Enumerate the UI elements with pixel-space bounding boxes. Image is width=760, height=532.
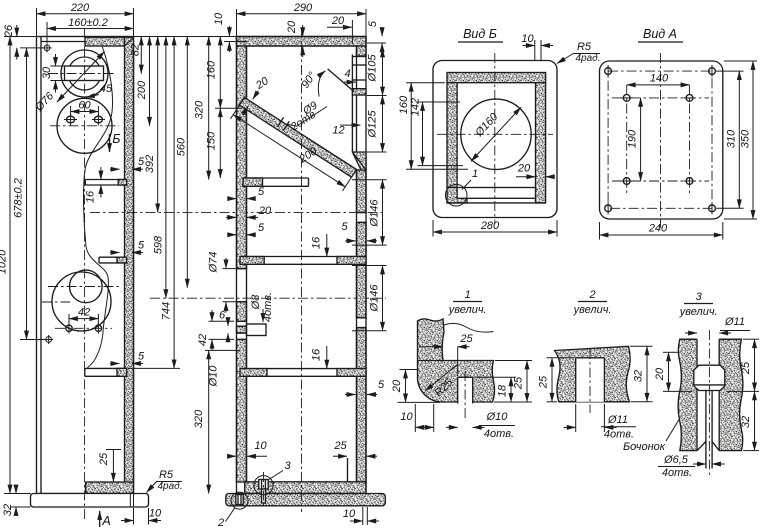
detail 2 dimension O11 4otv	[575, 404, 577, 432]
svg-text:25: 25	[513, 376, 525, 390]
arrow A bottom	[99, 511, 101, 527]
mid view: right wall inner edge lower	[356, 170, 358, 482]
shelf 3	[85, 367, 127, 369]
view B left wall	[447, 83, 457, 188]
svg-text:16: 16	[311, 348, 323, 361]
svg-text:Бочонок: Бочонок	[623, 441, 666, 453]
dimension 160 +-0.2	[46, 22, 48, 43]
svg-text:Вид Б: Вид Б	[463, 27, 497, 41]
detail 2 dimension 32	[630, 345, 653, 347]
svg-text:10: 10	[149, 508, 162, 520]
svg-text:678±0.2: 678±0.2	[13, 178, 25, 218]
speaker circle 1 outer	[61, 50, 108, 97]
svg-text:Ø11: Ø11	[724, 316, 745, 328]
port bottom chamfer	[352, 152, 366, 170]
detail 1 body (wall column + bottom slab, R25 corner)	[418, 319, 495, 402]
svg-text:240: 240	[648, 223, 668, 235]
svg-text:32: 32	[740, 416, 752, 428]
port tube lines	[351, 55, 353, 153]
dimension O74 left wall hole	[223, 268, 241, 270]
mid view: plinth section	[226, 494, 385, 506]
svg-text:2: 2	[589, 289, 596, 301]
dimension 160 view B	[406, 82, 445, 84]
left view: right side wall section (stipple)	[125, 37, 134, 482]
svg-text:4: 4	[344, 68, 350, 80]
dash-dot extension y298	[150, 297, 386, 299]
svg-text:30: 30	[41, 66, 53, 79]
dimension O76 diagonal	[57, 52, 105, 103]
svg-text:190: 190	[627, 129, 639, 148]
svg-text:Ø10: Ø10	[208, 365, 220, 388]
dimension 16 shelf1	[100, 167, 102, 180]
dimension 560	[186, 37, 188, 288]
svg-text:20: 20	[517, 163, 531, 175]
svg-text:5: 5	[138, 240, 145, 252]
left view: outer cabinet outline	[37, 37, 134, 494]
speaker circle 3 inner	[70, 270, 103, 303]
svg-text:320: 320	[193, 409, 205, 428]
svg-text:350: 350	[740, 129, 752, 148]
mid view: left wall section upper	[237, 46, 247, 269]
speaker 1 magnet rectangle	[65, 66, 104, 81]
svg-text:10: 10	[521, 33, 534, 45]
bottom wall inner left edge	[85, 482, 87, 494]
svg-text:598: 598	[152, 235, 164, 254]
detail 3 countersink	[697, 442, 706, 451]
dimension 16 shelf C	[326, 346, 328, 369]
svg-text:25: 25	[538, 375, 550, 389]
svg-text:5: 5	[378, 379, 385, 391]
svg-text:5: 5	[367, 20, 379, 27]
section break wavy line	[83, 46, 112, 368]
svg-text:12: 12	[332, 125, 344, 137]
svg-text:Ø125: Ø125	[367, 110, 379, 139]
svg-text:200: 200	[136, 80, 148, 100]
dimension 12 port	[340, 124, 361, 126]
svg-text:60: 60	[78, 100, 91, 112]
svg-text:5: 5	[138, 351, 145, 363]
dimension 16 shelf B	[326, 234, 328, 257]
dimension 32 plinth height	[10, 506, 31, 508]
mid view: right wall break lines	[357, 212, 367, 214]
callout 5 left wall lower	[228, 234, 236, 236]
detail 1 hole notch	[458, 377, 473, 403]
dimension 20 board thickness	[253, 91, 259, 100]
left view: bottom wall section (stipple)	[86, 482, 134, 494]
view A corner hole ticks	[607, 65, 609, 77]
svg-text:140: 140	[650, 73, 669, 85]
svg-text:10: 10	[343, 508, 356, 520]
mid view: right wall inner edge upper	[356, 46, 358, 56]
dimension 150 mid	[215, 107, 242, 109]
svg-text:744: 744	[161, 302, 173, 320]
dimension 10 left wall bottom	[228, 455, 236, 457]
mid view: top wall section	[237, 37, 367, 47]
svg-text:увелич.: увелич.	[679, 306, 718, 318]
mid view: top-left lip line	[237, 41, 247, 43]
svg-text:3: 3	[696, 291, 703, 303]
svg-text:392: 392	[144, 155, 156, 173]
dimension 240 view A	[599, 222, 601, 240]
screw detail circle 2	[236, 495, 243, 505]
svg-text:Ø11: Ø11	[607, 414, 628, 426]
callout 5 shelf2	[110, 252, 120, 254]
svg-text:42: 42	[78, 307, 90, 319]
wall screw hole top	[44, 45, 50, 51]
mid view: top wall inner edge	[247, 45, 357, 47]
callout 20 left wall	[226, 216, 236, 218]
svg-text:82: 82	[130, 44, 142, 56]
detail 1 dimension 18	[475, 376, 517, 378]
centerline circle1	[48, 73, 116, 75]
svg-text:4отв.: 4отв.	[484, 428, 514, 440]
centerline circle3	[48, 286, 122, 288]
mid view: left wall section lower	[237, 339, 247, 482]
svg-text:10: 10	[400, 411, 413, 423]
dimension 10 plinth right	[362, 507, 364, 525]
speaker circle 1 inner	[68, 57, 101, 90]
svg-text:20: 20	[258, 205, 272, 217]
detail 3 dimension 32 right	[743, 450, 759, 452]
svg-text:5: 5	[258, 222, 265, 234]
dimension 142 view B	[418, 101, 461, 103]
view B top wall band	[447, 73, 546, 83]
dimension 82	[140, 37, 142, 74]
svg-text:320: 320	[194, 100, 206, 119]
view A corner holes	[605, 68, 612, 75]
callout 5 shelf1	[110, 168, 120, 170]
left view: inner top lip line	[41, 41, 85, 43]
svg-text:Ø74: Ø74	[208, 252, 220, 274]
mid view: left wall section mid	[237, 302, 247, 322]
right dim column reference line	[134, 36, 237, 38]
view B bottom-left corner piece	[447, 188, 467, 203]
inner corner block line	[347, 458, 349, 482]
left view: top wall section (stipple)	[85, 37, 133, 46]
svg-text:5: 5	[341, 221, 348, 233]
view A body	[600, 61, 723, 219]
dimension 310 view A	[716, 70, 744, 72]
svg-text:160±0.2: 160±0.2	[68, 17, 108, 29]
view B outer rounded body	[433, 61, 557, 218]
dimension 42 (speaker3 holes)	[68, 314, 70, 324]
dimension 320 upper	[208, 37, 210, 180]
svg-text:4отв.: 4отв.	[262, 292, 274, 322]
shelf A	[243, 177, 309, 179]
dimension 598	[165, 37, 167, 299]
dimension 60 (speaker2 holes)	[70, 106, 72, 116]
svg-text:42: 42	[197, 334, 209, 346]
svg-text:560: 560	[176, 137, 188, 156]
screw detail circle 3	[259, 480, 268, 490]
view B corner detail circle 1	[445, 184, 467, 206]
dimension O105	[382, 49, 384, 96]
dimension O146 lower	[352, 265, 387, 267]
dimension O146 upper	[352, 179, 387, 181]
dimension 42 ledge	[209, 320, 235, 322]
dimension 25 right wall bottom	[333, 455, 347, 457]
svg-text:6: 6	[219, 310, 226, 322]
detail 1 dimension 20 left	[400, 369, 418, 371]
svg-text:увелич.: увелич.	[573, 304, 612, 316]
dimension 20 top wall	[302, 25, 304, 36]
svg-text:10: 10	[254, 440, 267, 452]
left view: corner miter line	[125, 37, 134, 46]
svg-text:4отв.: 4отв.	[604, 429, 634, 441]
dimension 20 top right	[351, 20, 353, 44]
svg-text:Б: Б	[112, 132, 120, 146]
left view: front panel inner edge line	[40, 37, 42, 494]
detail 1 dimension 10 bottom	[414, 404, 416, 432]
dimension 200	[149, 37, 151, 126]
mid view: outer box	[237, 37, 367, 494]
svg-text:220: 220	[70, 2, 90, 14]
mid view: right wall section segments	[357, 46, 367, 56]
svg-text:Ø105: Ø105	[367, 54, 379, 83]
svg-text:Ø10: Ø10	[486, 411, 509, 423]
svg-text:18: 18	[497, 384, 509, 397]
svg-text:1: 1	[465, 289, 471, 301]
detail 2 centerline	[589, 349, 591, 413]
svg-text:10: 10	[213, 12, 225, 25]
svg-text:Ø6,5: Ø6,5	[663, 454, 689, 466]
svg-text:160: 160	[206, 60, 218, 79]
dimension 160 mid	[219, 37, 221, 109]
mid view: terminal block stub	[247, 324, 267, 336]
section arrow B	[109, 134, 111, 152]
callout 5 left wall upper	[228, 198, 236, 200]
centerline vertical left view	[84, 28, 86, 521]
left view: plinth (base)	[31, 494, 149, 508]
detail 1 dimension 25 right	[495, 360, 532, 362]
dimension 744	[173, 37, 175, 369]
centerline vertical mid view	[301, 28, 303, 512]
view B bottom inner line	[447, 202, 546, 204]
svg-text:4рад.: 4рад.	[158, 481, 183, 492]
dimension 678 +-0.2	[26, 48, 28, 340]
svg-text:32: 32	[633, 370, 645, 382]
svg-text:А: А	[101, 514, 110, 528]
svg-text:32: 32	[2, 504, 14, 516]
svg-text:Ø146: Ø146	[369, 284, 381, 313]
view A inner holes	[623, 95, 630, 102]
wall screw hole bottom	[46, 337, 52, 343]
svg-text:25: 25	[333, 440, 347, 452]
dimension 5 top right	[367, 42, 386, 44]
svg-text:Ø146: Ø146	[369, 199, 381, 228]
diagonal board (section)	[239, 97, 356, 177]
detail 3 barrel nut	[694, 365, 725, 390]
svg-text:3: 3	[284, 460, 291, 472]
view B centerlines	[494, 53, 496, 224]
dimension 25 bottom gap	[106, 449, 121, 451]
dimension 1020	[9, 37, 11, 494]
svg-text:20: 20	[331, 15, 345, 27]
detail 3 body	[678, 339, 743, 450]
svg-text:16: 16	[85, 190, 97, 203]
mid view: left wall ledge feature	[237, 326, 247, 333]
svg-text:20: 20	[654, 367, 666, 381]
detail 2 dimension 25	[547, 357, 575, 359]
callout 5 right wall upper	[345, 240, 356, 242]
shelf 1	[85, 179, 126, 181]
svg-text:4отв.: 4отв.	[662, 467, 692, 479]
detail 1 dimension O10 4otv	[446, 426, 458, 428]
dimension 290	[236, 9, 238, 37]
dimension 200 along board	[231, 105, 240, 119]
left view: wall edge lines through plinth	[129, 494, 131, 508]
svg-text:2: 2	[217, 517, 224, 529]
dash-dot extension y212	[90, 211, 386, 213]
detail 3 dimension 25 right	[743, 338, 759, 340]
dimension 6 ledge	[227, 317, 229, 326]
svg-text:280: 280	[480, 220, 500, 232]
dimension 350 view A	[724, 60, 757, 62]
dimension 10 view B top	[534, 40, 536, 61]
svg-text:142: 142	[410, 98, 422, 116]
svg-text:20: 20	[391, 379, 403, 393]
view A centerline vertical	[660, 53, 662, 228]
dimension 10 top-left mid	[224, 41, 237, 43]
svg-text:160: 160	[398, 95, 410, 114]
mid view: left wall inner edge	[246, 46, 248, 482]
detail 3 dimension 20	[663, 351, 678, 353]
speaker circle 2 (mid)	[57, 98, 112, 153]
speaker 2 mounting holes	[67, 116, 75, 123]
svg-text:150: 150	[206, 131, 218, 150]
view B speaker hole O160	[461, 99, 531, 169]
svg-text:1: 1	[472, 168, 478, 180]
shelf B	[240, 256, 366, 258]
dimension 26 top left	[20, 36, 37, 38]
shelf 2	[99, 256, 127, 258]
dimension O125	[382, 96, 384, 153]
board hole tick marks	[278, 118, 284, 128]
dimension 320 lower	[205, 349, 240, 351]
svg-text:25: 25	[98, 452, 110, 466]
mid view: bottom wall section	[245, 482, 366, 494]
view B right wall	[536, 83, 546, 203]
dimension 10 plinth offset	[133, 508, 135, 525]
speaker circle 3 outer (bottom)	[52, 272, 111, 331]
view A dash-dot frame through corner holes	[608, 71, 712, 208]
svg-text:25: 25	[459, 333, 473, 345]
svg-text:5: 5	[258, 186, 265, 198]
dimension 190 view A	[640, 98, 642, 181]
detail 2 slot	[576, 358, 605, 402]
detail 1 column/slab joint line	[418, 360, 444, 362]
dimension 220	[36, 8, 38, 37]
svg-text:Ø8: Ø8	[250, 294, 262, 311]
svg-text:4рад.: 4рад.	[576, 53, 601, 64]
svg-text:25: 25	[740, 361, 752, 375]
centerline circle2	[50, 125, 119, 127]
svg-text:16: 16	[311, 236, 323, 249]
svg-text:45: 45	[100, 83, 113, 95]
label 4 port ring	[344, 81, 356, 83]
detail 2 body	[555, 346, 631, 402]
svg-text:Вид А: Вид А	[643, 27, 677, 41]
dimension O160 diagonal	[471, 107, 521, 161]
detail 3 O6.5 hole lines	[705, 391, 707, 469]
svg-text:R5: R5	[577, 41, 592, 53]
dimension 280 view B	[432, 220, 434, 237]
dimension 392	[157, 37, 159, 213]
detail 1 dimension 25 top	[457, 347, 459, 376]
detail 3 centerline	[708, 330, 710, 476]
dimension 30 (speaker1 offset)	[50, 65, 66, 67]
detail 3 slot	[697, 338, 719, 452]
mid view: left wall hole boundary lines	[237, 268, 247, 270]
extension shelf3 top	[128, 367, 180, 369]
dimension 20 view B	[516, 176, 535, 178]
svg-text:1020: 1020	[0, 249, 9, 274]
shelf C	[240, 368, 366, 370]
view A inner hole centerlines	[612, 97, 709, 99]
detail 1 break line above slab	[443, 323, 494, 332]
svg-text:20: 20	[286, 20, 298, 34]
svg-text:310: 310	[726, 129, 738, 148]
svg-text:290: 290	[293, 2, 313, 14]
callout 5 right wall lower	[345, 394, 356, 396]
detail 1 hole centerline	[464, 371, 466, 421]
callout 5 shelf3	[110, 363, 120, 365]
speaker 3 mounting holes	[66, 325, 72, 331]
centerline lower holes	[55, 327, 112, 329]
svg-text:R5: R5	[159, 469, 174, 481]
centerline circle3 outer	[42, 301, 70, 303]
dimension 140 view A	[627, 84, 690, 86]
port funnel diagonal	[328, 69, 354, 92]
view B back board	[457, 188, 535, 199]
detail 1 label R25	[425, 364, 458, 391]
svg-text:увелич.: увелич.	[448, 304, 487, 316]
